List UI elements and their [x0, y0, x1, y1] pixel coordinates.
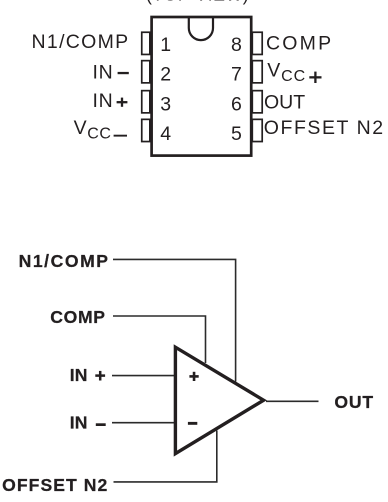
svg-text:COMP: COMP	[266, 33, 333, 55]
svg-text:7: 7	[231, 63, 242, 85]
svg-text:OUT: OUT	[334, 392, 374, 412]
svg-text:N1/COMP: N1/COMP	[19, 251, 110, 271]
svg-text:COMP: COMP	[50, 307, 105, 327]
svg-text:IN: IN	[70, 412, 88, 432]
svg-text:OUT: OUT	[264, 92, 305, 114]
svg-text:4: 4	[160, 123, 171, 145]
svg-text:OFFSET N2: OFFSET N2	[264, 117, 385, 139]
svg-text:8: 8	[231, 34, 242, 56]
svg-text:3: 3	[160, 94, 171, 116]
svg-text:1: 1	[160, 34, 171, 56]
svg-text:(TOP VIEW): (TOP VIEW)	[146, 0, 249, 5]
svg-text:IN: IN	[92, 61, 113, 83]
svg-text:IN: IN	[92, 90, 113, 112]
svg-text:6: 6	[231, 94, 242, 116]
svg-text:2: 2	[160, 63, 171, 85]
svg-text:5: 5	[231, 123, 242, 145]
svg-text:IN: IN	[70, 365, 88, 385]
svg-text:OFFSET N2: OFFSET N2	[2, 475, 108, 495]
svg-text:N1/COMP: N1/COMP	[32, 31, 130, 53]
